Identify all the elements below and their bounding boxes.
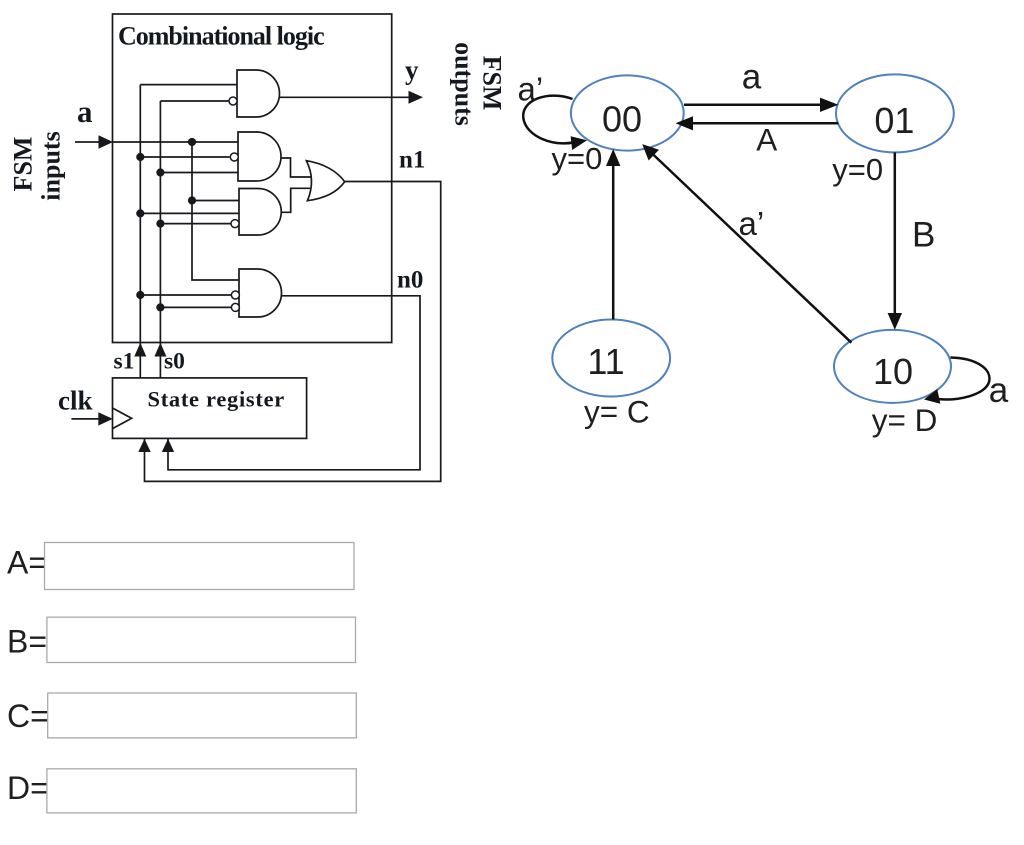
combinational logic box	[113, 14, 392, 343]
wire gate3 bottom input	[160, 223, 231, 225]
transition A from 01 to 00	[676, 116, 839, 130]
wire s0 vertical	[159, 101, 161, 378]
wire s1 vertical	[139, 85, 141, 378]
svg-text:a: a	[77, 94, 93, 129]
transition a self-loop on 10	[924, 358, 989, 404]
wire gate2 bottom input	[160, 172, 238, 174]
transition a' from 10 to 00	[642, 144, 851, 343]
svg-text:FSM: FSM	[478, 56, 507, 111]
svg-text:a’: a’	[518, 71, 544, 108]
inversion bubble G3 input	[231, 220, 239, 228]
clk input arrow	[71, 412, 112, 425]
wire gate3 middle input	[140, 212, 239, 214]
FSM state 10	[834, 330, 951, 403]
node junction s1/gate3	[136, 209, 144, 217]
svg-text:FSM: FSM	[9, 137, 38, 192]
svg-text:y= D: y= D	[872, 402, 938, 438]
svg-text:A: A	[756, 121, 777, 157]
svg-text:B=: B=	[7, 624, 47, 660]
svg-text:n0: n0	[397, 267, 423, 294]
svg-text:10: 10	[873, 351, 913, 392]
clk edge triangle	[113, 408, 132, 429]
svg-text:outputs: outputs	[450, 42, 479, 126]
transition a' self-loop on 00	[523, 96, 587, 150]
label FSM outputs (rotated)	[450, 42, 507, 126]
svg-text:11: 11	[587, 341, 624, 382]
svg-text:A=: A=	[7, 545, 47, 581]
wire a horizontal	[113, 141, 239, 143]
node junction s0/gate2	[156, 168, 164, 176]
wire gate1 top input	[140, 84, 237, 86]
node junction s0/gate3	[156, 220, 164, 228]
svg-text:s0: s0	[164, 348, 185, 374]
and-gate G3	[239, 189, 281, 236]
svg-text:00: 00	[602, 98, 642, 139]
or-gate U1 (n1)	[306, 161, 344, 201]
FSM state 11	[552, 320, 670, 397]
answer box C	[48, 693, 357, 738]
inversion bubble G4 middle input	[231, 291, 239, 299]
arrowhead n0 into register	[162, 439, 174, 452]
node junction s1/gate4	[136, 291, 144, 299]
wire vertical a branch	[192, 142, 239, 280]
inversion bubble G1 input	[229, 97, 237, 105]
answer box B	[47, 617, 356, 662]
wire s1 to box with arrowhead	[134, 343, 146, 357]
answer box D	[47, 769, 356, 813]
svg-text:Combinational logic: Combinational logic	[118, 22, 324, 51]
wire n1 feedback	[145, 182, 441, 482]
node junction a/gate3	[188, 196, 196, 204]
wire gate3 top input	[192, 200, 239, 202]
FSM state 01	[836, 74, 954, 152]
and-gate G2	[238, 132, 281, 181]
input arrow a	[75, 135, 113, 148]
svg-text:inputs: inputs	[37, 131, 66, 200]
node junction a/x192	[188, 138, 196, 146]
wire gate2 middle input	[140, 156, 229, 158]
svg-text:B: B	[912, 215, 935, 254]
svg-text:C=: C=	[7, 698, 49, 734]
transition from 11 to 00	[606, 149, 620, 320]
wire s0 to box with arrowhead	[154, 343, 166, 357]
svg-text:n1: n1	[399, 147, 425, 174]
inversion bubble G2 input	[230, 153, 238, 161]
svg-text:y: y	[405, 55, 419, 85]
wire y output with arrow	[280, 91, 424, 104]
and-gate G4 (n0)	[239, 269, 282, 317]
label FSM inputs (rotated)	[9, 131, 66, 200]
svg-text:01: 01	[874, 100, 914, 141]
answer box A	[45, 543, 355, 590]
transition a from 00 to 01	[684, 98, 838, 112]
svg-text:a: a	[989, 371, 1009, 410]
state register box	[113, 378, 307, 439]
svg-text:s1: s1	[114, 348, 135, 374]
wire gate4 bottom input	[160, 306, 231, 308]
wire gate1 bottom input	[160, 100, 229, 102]
wire gate4 middle input	[140, 294, 231, 296]
svg-text:y= C: y= C	[584, 394, 650, 430]
wire G2 output to OR	[281, 158, 311, 177]
and-gate G1 (y output)	[237, 70, 279, 117]
wire n0 feedback	[168, 296, 420, 470]
transition B from 01 to 10	[888, 152, 902, 330]
svg-text:D=: D=	[7, 770, 49, 806]
svg-text:a’: a’	[739, 205, 765, 242]
inversion bubble G4 bottom input	[231, 303, 239, 311]
node junction s1/gate2	[136, 153, 144, 161]
wire G3 output to OR	[281, 188, 310, 212]
arrowhead n1 into register	[138, 439, 150, 452]
svg-text:y=0: y=0	[832, 152, 883, 187]
svg-text:State register: State register	[148, 387, 285, 412]
node junction s0/gate4	[156, 303, 164, 311]
svg-text:clk: clk	[58, 385, 93, 415]
svg-text:a: a	[742, 57, 762, 96]
FSM state 00	[571, 75, 684, 150]
